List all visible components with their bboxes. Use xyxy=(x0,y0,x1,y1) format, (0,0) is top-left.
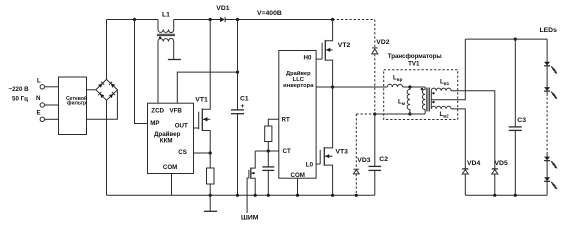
transformer TV1 labels xyxy=(388,53,442,68)
wire L to filter xyxy=(45,86,59,88)
LED string wire xyxy=(544,39,557,195)
wire resistor to rail xyxy=(209,184,211,195)
svg-text:COM: COM xyxy=(291,172,305,179)
inductor L1 xyxy=(157,12,175,42)
magnetizing inductance Lm xyxy=(398,87,410,114)
wire midpoint to resonant inductor xyxy=(333,86,388,88)
bridge diode L-T xyxy=(98,82,104,88)
node CT cap bottom xyxy=(267,194,270,197)
terminal N xyxy=(36,95,45,107)
wire MP tap to MP pin xyxy=(135,20,148,124)
node MP tap xyxy=(133,18,136,21)
svg-text:V=400В: V=400В xyxy=(257,10,282,17)
svg-text:CS: CS xyxy=(178,149,187,156)
svg-text:LEDs: LEDs xyxy=(540,27,558,34)
wire Lm bottom line xyxy=(375,113,425,115)
resistor RT xyxy=(265,126,272,142)
wire VFB up and to C1 node xyxy=(177,72,237,103)
svg-text:VD1: VD1 xyxy=(216,5,229,12)
node VFB-C1 xyxy=(236,71,239,74)
node VD3 anode xyxy=(355,194,358,197)
svg-text:E: E xyxy=(37,110,41,117)
node VT1 drain xyxy=(209,18,212,21)
svg-text:L1: L1 xyxy=(162,12,170,19)
wire source to resistor xyxy=(209,153,211,168)
secondary winding Lv2 xyxy=(431,100,451,119)
wire PWM up to dimming FET gate xyxy=(247,178,249,213)
diode VD5 xyxy=(492,160,508,195)
svg-text:C3: C3 xyxy=(517,117,526,124)
wire to primary top xyxy=(403,86,426,88)
svg-text:N: N xyxy=(36,95,41,102)
network filter box xyxy=(59,77,88,135)
top rail (rectified / boost) xyxy=(107,19,159,21)
svg-text:VD2: VD2 xyxy=(376,39,389,46)
node C1 bottom xyxy=(236,194,239,197)
svg-text:C1: C1 xyxy=(240,96,249,103)
wire LLC COM to rail xyxy=(297,178,299,195)
capacitor C2 (resonant) xyxy=(369,114,389,195)
node Lm bottom xyxy=(408,112,411,115)
MOSFET VT2 xyxy=(322,20,350,88)
transformer core xyxy=(427,88,429,112)
primary winding xyxy=(421,87,425,114)
ground (L1 aux) xyxy=(168,59,181,61)
wire bridge bottom to bottom rail xyxy=(106,100,108,195)
diode VD4 xyxy=(462,160,480,195)
LED D1 xyxy=(544,62,550,66)
diode VD3 (clamp, dashed branch) xyxy=(353,114,374,195)
MOSFET VT3 xyxy=(320,87,348,195)
svg-text:ZCD: ZCD xyxy=(151,108,164,115)
node Lm top xyxy=(408,85,411,88)
label ~220V 50Hz xyxy=(9,86,30,103)
svg-text:COM: COM xyxy=(163,164,177,171)
terminal L xyxy=(37,78,45,90)
wire resistor RT to CT node xyxy=(267,142,269,152)
MOSFET VT1 xyxy=(195,20,210,154)
wire RT to resistor xyxy=(268,119,279,126)
svg-text:фильтр: фильтр xyxy=(67,100,86,107)
wire filter to bridge left vertex xyxy=(87,89,96,91)
output bottom rail xyxy=(465,194,547,196)
wire CS to VT1 source xyxy=(194,152,211,154)
wire LLC midpoint pin xyxy=(316,86,333,88)
capacitor C1 xyxy=(231,20,249,196)
svg-text:+: + xyxy=(241,103,245,110)
node VD5 anode xyxy=(493,194,496,197)
wire H0 to VT2 gate xyxy=(316,58,322,60)
COM wire to rail xyxy=(171,174,173,196)
LED D2 xyxy=(544,87,550,91)
wire N to filter xyxy=(45,104,59,106)
wire center tap to output rail xyxy=(431,39,465,100)
svg-text:VT1: VT1 xyxy=(195,97,208,104)
diode VD2 (clamp, dashed branch) xyxy=(372,20,390,115)
wire aux left to ZCD xyxy=(157,42,159,104)
wire OUT to VT1 gate xyxy=(194,127,199,129)
svg-text:CT: CT xyxy=(283,148,291,155)
svg-text:L: L xyxy=(37,78,41,85)
wire E to filter xyxy=(45,118,59,120)
node VT3 source xyxy=(331,194,334,197)
node C3 bottom xyxy=(514,194,517,197)
svg-text:инвертора: инвертора xyxy=(283,83,314,89)
secondary winding Lv1 xyxy=(431,79,451,100)
terminal E xyxy=(37,110,45,122)
svg-text:Н0: Н0 xyxy=(304,55,312,62)
svg-text:RT: RT xyxy=(282,117,290,124)
bridge diode B-L xyxy=(98,92,104,98)
transformer dashed box xyxy=(384,70,458,120)
svg-text:МР: МР xyxy=(150,120,159,127)
LED D3 xyxy=(544,157,550,161)
dashed rail to VD2 xyxy=(333,19,375,21)
wire bridge top to rail xyxy=(106,20,108,80)
wire CT to FET drain xyxy=(255,150,279,152)
node CS xyxy=(209,151,212,154)
svg-text:VD5: VD5 xyxy=(495,160,508,167)
L1 aux winding xyxy=(158,38,174,41)
bridge diode R-T xyxy=(109,82,115,88)
svg-text:OUT: OUT xyxy=(175,123,188,130)
wire filter to bridge right vertex xyxy=(87,90,118,120)
svg-text:C2: C2 xyxy=(379,156,388,163)
svg-text:Трансформаторы: Трансформаторы xyxy=(388,53,442,60)
node VT2 drain xyxy=(331,18,334,21)
capacitor C3 xyxy=(509,39,526,195)
node resistor/ground xyxy=(209,194,212,197)
svg-text:L0: L0 xyxy=(306,162,314,169)
svg-text:VD3: VD3 xyxy=(357,157,370,164)
svg-text:TV1: TV1 xyxy=(408,61,420,68)
node resonant cap top xyxy=(373,112,376,115)
LED D4 xyxy=(544,177,550,181)
node C3 top xyxy=(514,38,517,41)
wire L0 to VT3 gate xyxy=(316,163,320,165)
diode VD1 xyxy=(216,5,229,22)
svg-text:VD4: VD4 xyxy=(467,160,480,167)
resistor (current sense) xyxy=(207,168,215,184)
wire Lv1 to VD5 xyxy=(451,91,495,169)
svg-text:VFB: VFB xyxy=(170,108,183,115)
resonant inductor Lvr xyxy=(387,75,402,88)
PFC driver box xyxy=(148,103,194,173)
node dimming FET source xyxy=(254,194,257,197)
svg-text:50 Гц: 50 Гц xyxy=(12,96,28,103)
dashed LED continuation xyxy=(546,98,548,153)
node CT xyxy=(267,149,270,152)
node half-bridge midpoint xyxy=(331,85,334,88)
wire Lv2 to VD4 xyxy=(451,109,465,169)
output top rail xyxy=(465,38,547,40)
wire aux right to ground xyxy=(173,42,175,60)
bridge rectifier xyxy=(96,79,118,100)
svg-text:ККМ: ККМ xyxy=(160,138,173,145)
svg-text:VT3: VT3 xyxy=(336,149,349,156)
primary bottom rail xyxy=(107,194,375,196)
L1 core xyxy=(157,33,175,35)
node LLC COM xyxy=(296,194,299,197)
LLC driver box xyxy=(279,51,316,180)
svg-text:~220 В: ~220 В xyxy=(9,86,30,93)
svg-text:ШИМ: ШИМ xyxy=(241,215,259,221)
bridge diode B-R xyxy=(109,92,115,98)
dimming MOSFET xyxy=(249,151,255,195)
ground (primary) xyxy=(204,195,217,211)
svg-text:VT2: VT2 xyxy=(338,42,351,49)
node C1 top xyxy=(236,18,239,21)
capacitor CT xyxy=(262,151,274,195)
svg-text:Драйвер: Драйвер xyxy=(286,70,311,77)
